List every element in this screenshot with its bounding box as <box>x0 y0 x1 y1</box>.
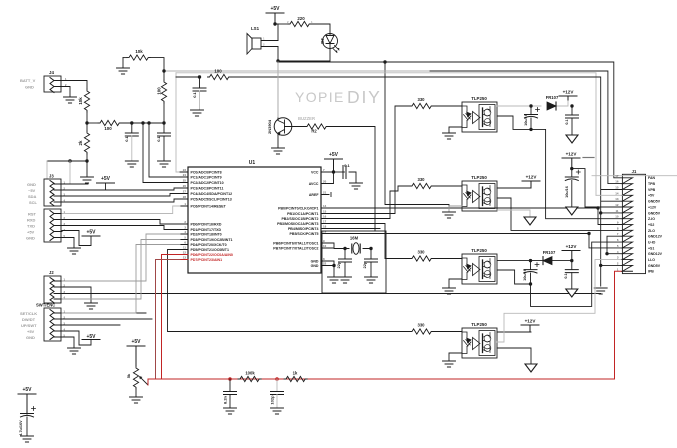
svg-text:1k: 1k <box>293 371 298 376</box>
wire PD2 to J2 pin1 <box>62 234 180 281</box>
wire PD3 to J2 pin4 <box>62 240 180 300</box>
svg-text:D3: D3 <box>320 38 325 44</box>
pin numbers <box>615 174 619 271</box>
output net to J1 pin6 <box>497 242 622 306</box>
svg-text:2k: 2k <box>78 140 83 145</box>
cap 10u/16 <box>524 106 540 129</box>
svg-text:FR107: FR107 <box>546 95 559 100</box>
svg-text:14: 14 <box>615 191 619 195</box>
svg-text:8: 8 <box>617 226 619 230</box>
svg-text:AREF: AREF <box>309 193 319 197</box>
svg-text:+12V: +12V <box>526 175 538 180</box>
svg-text:PC0/ADC0/PCINT8: PC0/ADC0/PCINT8 <box>191 170 222 174</box>
svg-text:17: 17 <box>323 220 327 224</box>
svg-text:PC5/ADC5/SCL/PCINT13: PC5/ADC5/SCL/PCINT13 <box>191 197 232 201</box>
svg-text:2: 2 <box>263 43 265 47</box>
gray wire across pin17 <box>592 175 677 177</box>
svg-text:0.1: 0.1 <box>156 135 161 141</box>
TXD wire to PD1 <box>62 226 180 230</box>
GND12V bundle pins 7 and 4 <box>607 236 622 254</box>
svg-text:SDA: SDA <box>28 194 37 199</box>
svg-text:ZLO: ZLO <box>648 229 655 233</box>
svg-text:PB3/MOSI/OC2A/PCINT3: PB3/MOSI/OC2A/PCINT3 <box>277 222 318 226</box>
svg-text:1: 1 <box>311 20 313 24</box>
svg-text:16M: 16M <box>350 236 359 241</box>
svg-text:0.1: 0.1 <box>192 91 197 97</box>
node speaker net / B branch <box>383 60 386 63</box>
svg-text:19: 19 <box>323 230 327 234</box>
VCC line with diode FR107 reversed <box>497 260 572 262</box>
cap 8.2n <box>223 379 237 414</box>
right pin stubs <box>321 172 329 266</box>
cap 10u/16 <box>523 261 539 284</box>
svg-text:PD7/PCINT23/AIN1: PD7/PCINT23/AIN1 <box>191 258 223 262</box>
svg-text:GND12V: GND12V <box>648 235 663 239</box>
wire PD5 to TLP4 input <box>168 250 411 332</box>
svg-text:YOPIE: YOPIE <box>295 89 345 105</box>
svg-text:BUZZER: BUZZER <box>298 116 315 121</box>
svg-text:PD3/PCINT19/OC2B/INT1: PD3/PCINT19/OC2B/INT1 <box>191 238 233 242</box>
svg-text:13: 13 <box>183 256 187 260</box>
svg-text:VCC: VCC <box>311 170 319 174</box>
wire J4 pin2 to gnd <box>64 87 70 98</box>
svg-text:TLP250: TLP250 <box>471 322 487 327</box>
svg-text:+12V: +12V <box>525 319 537 324</box>
svg-text:J3: J3 <box>49 174 54 179</box>
svg-text:+5V: +5V <box>27 329 35 334</box>
svg-text:TLP250: TLP250 <box>471 175 487 180</box>
svg-text:3: 3 <box>617 256 619 260</box>
svg-text:+S2: +S2 <box>648 223 654 227</box>
svg-text:+S1: +S1 <box>648 246 654 250</box>
J2 pin3 long wire <box>62 293 601 295</box>
svg-text:2: 2 <box>287 20 289 24</box>
svg-text:UP/SWT: UP/SWT <box>21 323 37 328</box>
output wire to J1 pin10 <box>497 116 622 219</box>
svg-text:20: 20 <box>323 180 327 184</box>
output to J1 pin8 <box>497 198 622 230</box>
svg-text:+12V: +12V <box>566 244 578 249</box>
svg-text:RST: RST <box>28 211 37 216</box>
connector J3 (I2C) <box>27 174 88 207</box>
opto U4 TLP250 <box>462 254 497 284</box>
resistor R2 <box>305 124 328 134</box>
connector J5 serial <box>26 209 66 242</box>
svg-text:BATT_V: BATT_V <box>20 78 36 83</box>
svg-text:TLP250: TLP250 <box>471 96 487 101</box>
svg-text:+12V: +12V <box>566 152 578 157</box>
svg-text:26: 26 <box>183 184 187 188</box>
svg-text:PD1/PCINT17/TXD: PD1/PCINT17/TXD <box>191 228 222 232</box>
svg-text:100k: 100k <box>245 371 255 376</box>
svg-text:PB4/MISO/PCINT4: PB4/MISO/PCINT4 <box>288 227 319 231</box>
svg-text:+5V: +5V <box>648 194 655 198</box>
svg-text:15: 15 <box>615 186 619 190</box>
connector J2 <box>44 270 62 303</box>
resistor 330 <box>410 323 433 335</box>
RXD wire to PD0 <box>62 220 180 225</box>
cap 102p <box>270 379 284 414</box>
svg-text:PD2/PCINT18/INT0: PD2/PCINT18/INT0 <box>191 232 222 236</box>
cap 22p right <box>362 249 378 284</box>
svg-text:GND: GND <box>25 85 34 90</box>
+12V at pin8 <box>497 187 531 189</box>
VCC line to +12V with diode <box>497 100 568 106</box>
svg-text:8: 8 <box>323 257 325 261</box>
svg-text:PB5/SCK/PCINT5: PB5/SCK/PCINT5 <box>290 232 319 236</box>
svg-text:22p: 22p <box>362 261 367 268</box>
RST wire (gray) to PC6 <box>62 206 180 214</box>
svg-text:4: 4 <box>617 250 619 254</box>
svg-text:0.1: 0.1 <box>565 119 569 124</box>
SCL wire to PC5 <box>62 199 180 202</box>
svg-text:11: 11 <box>615 209 618 213</box>
PB4 down to TLP4 input <box>329 228 380 230</box>
resistor 330 <box>410 97 433 109</box>
svg-text:TPB: TPB <box>648 182 655 186</box>
resistor 220 <box>287 16 313 27</box>
resistor 10k vertical <box>78 89 90 131</box>
AREF stub tick <box>330 193 332 197</box>
svg-text:GND: GND <box>27 182 36 187</box>
svg-text:GND5V: GND5V <box>648 264 661 268</box>
resistor 100k <box>238 371 261 382</box>
svg-text:J4: J4 <box>49 70 54 75</box>
resistor 330 <box>410 250 433 262</box>
wire J4 pin1 to divider <box>64 81 87 90</box>
PB3 down to TLP3 input <box>329 224 410 259</box>
pin numbers <box>183 168 187 260</box>
svg-text:12: 12 <box>615 203 619 207</box>
gray vertical to PC0 <box>176 73 188 172</box>
wire to PC1 <box>147 121 150 124</box>
resistor 330 <box>410 177 433 189</box>
long net A : collector node to J1 pin17 <box>278 62 622 178</box>
svg-text:U-IO: U-IO <box>648 241 656 245</box>
bottom node wires <box>47 161 87 177</box>
wire LED bottom back to column <box>278 49 330 61</box>
svg-text:PC2/ADC2/PCINT10: PC2/ADC2/PCINT10 <box>191 181 224 185</box>
+12V <box>562 244 580 261</box>
svg-text:LS1: LS1 <box>251 26 260 31</box>
ground under J1 <box>594 288 607 294</box>
svg-text:IPB: IPB <box>648 270 654 274</box>
crystal 16M <box>350 236 360 255</box>
svg-text:5: 5 <box>617 244 619 248</box>
wire +5V down to speaker / collector column <box>275 24 278 119</box>
svg-text:+5V: +5V <box>27 229 35 234</box>
svg-text:Z-IO: Z-IO <box>648 217 655 221</box>
svg-text:220: 220 <box>297 16 305 21</box>
svg-text:100: 100 <box>104 126 112 131</box>
pin5 to gnd triangle <box>497 210 530 217</box>
svg-text:10k: 10k <box>135 49 143 54</box>
svg-text:16: 16 <box>323 215 327 219</box>
svg-text:FR107: FR107 <box>543 250 556 255</box>
svg-text:0.1: 0.1 <box>124 135 129 141</box>
cap 0.1 <box>564 261 578 297</box>
svg-text:+5V: +5V <box>131 339 141 345</box>
svg-text:J2: J2 <box>49 270 54 275</box>
svg-text:PB1/OC1A/PCINT1: PB1/OC1A/PCINT1 <box>287 212 318 216</box>
GND pins wire <box>329 261 334 277</box>
resistor 1k <box>284 371 307 382</box>
svg-text:+12V: +12V <box>563 90 575 95</box>
svg-text:J1: J1 <box>632 169 637 174</box>
svg-text:R2: R2 <box>311 129 317 134</box>
svg-text:SET/CLK: SET/CLK <box>20 311 37 316</box>
long net E y=77 <box>176 77 622 286</box>
svg-text:9: 9 <box>617 221 619 225</box>
svg-text:0.1: 0.1 <box>564 273 568 278</box>
wire PD4 to SWT pin1 <box>62 245 180 314</box>
output gray to J1 pin3 <box>497 260 622 342</box>
svg-text:100: 100 <box>214 69 222 74</box>
svg-text:1: 1 <box>263 37 265 41</box>
svg-text:9: 9 <box>323 239 325 243</box>
svg-text:PB7/PCINT7/XTAL2/TOSC2: PB7/PCINT7/XTAL2/TOSC2 <box>273 246 318 250</box>
svg-text:11: 11 <box>183 246 186 250</box>
node: +5V junction <box>273 22 276 25</box>
svg-text:100: 100 <box>157 87 162 95</box>
svg-text:U1: U1 <box>249 160 256 166</box>
LED D3 <box>320 31 339 53</box>
wire resistor to LED <box>310 24 330 31</box>
+12V <box>559 90 577 101</box>
svg-text:TLP250: TLP250 <box>471 248 487 253</box>
svg-text:6: 6 <box>617 238 619 242</box>
svg-text:330: 330 <box>418 177 426 182</box>
svg-text:PC1/ADC1/PCINT9: PC1/ADC1/PCINT9 <box>191 175 222 179</box>
svg-text:SCL: SCL <box>29 200 38 205</box>
emitter to ground <box>277 135 279 148</box>
svg-text:GND: GND <box>311 259 319 263</box>
cap 0.1 <box>565 106 579 143</box>
svg-text:GND: GND <box>26 335 35 340</box>
svg-text:16: 16 <box>615 180 619 184</box>
svg-text:FAN: FAN <box>648 176 655 180</box>
ground left of 10k <box>122 58 124 68</box>
+5V rail top <box>266 6 284 24</box>
svg-text:8.2n: 8.2n <box>223 395 228 404</box>
cap 0.1 at VCC <box>334 163 363 189</box>
svg-text:4.7u/16V: 4.7u/16V <box>19 420 23 436</box>
svg-text:2N3904: 2N3904 <box>267 119 272 134</box>
pin labels <box>648 176 663 273</box>
svg-text:24: 24 <box>183 173 187 177</box>
svg-text:VPB: VPB <box>648 188 656 192</box>
svg-text:PC3/ADC3/PCINT11: PC3/ADC3/PCINT11 <box>191 186 224 190</box>
svg-text:PD6/PCINT22/OC0A/AIN0: PD6/PCINT22/OC0A/AIN0 <box>191 253 233 257</box>
svg-text:PB0/PCINT0/CLKO/ICP1: PB0/PCINT0/CLKO/ICP1 <box>278 206 318 210</box>
resistor 10k horizontal <box>123 49 164 71</box>
red bottom rail <box>148 271 622 379</box>
svg-text:GND: GND <box>311 264 319 268</box>
svg-text:25: 25 <box>183 179 187 183</box>
long net C black y=71 <box>164 70 430 72</box>
input gnd <box>449 353 462 361</box>
svg-text:GND5V: GND5V <box>648 200 661 204</box>
svg-text:+5V: +5V <box>86 230 96 236</box>
svg-text:6: 6 <box>184 241 186 245</box>
wire to PC2 <box>141 121 144 124</box>
GND wire <box>62 238 74 249</box>
PD6 red wire <box>162 255 181 380</box>
svg-text:1: 1 <box>617 267 619 271</box>
svg-text:4: 4 <box>64 228 66 232</box>
svg-text:2: 2 <box>617 261 619 265</box>
svg-text:1: 1 <box>184 202 186 206</box>
svg-text:PD0/PCINT16/RXD: PD0/PCINT16/RXD <box>191 222 222 226</box>
svg-text:RXD: RXD <box>27 217 36 222</box>
svg-text:21: 21 <box>323 191 327 195</box>
svg-text:12: 12 <box>183 251 187 255</box>
input gnd <box>449 206 462 212</box>
resistor 100 horizontal divider <box>87 120 164 131</box>
svg-text:GND5V: GND5V <box>648 211 661 215</box>
svg-text:+5V: +5V <box>22 387 32 393</box>
svg-text:22: 22 <box>323 262 327 266</box>
XTAL wires <box>329 243 371 249</box>
svg-text:10u/16: 10u/16 <box>524 114 528 126</box>
long net B <box>385 62 449 208</box>
opto U2 TLP250 <box>462 102 497 132</box>
svg-text:2: 2 <box>184 220 186 224</box>
cap 0.1 second <box>156 123 171 167</box>
long net D gray y=72.8 <box>176 73 596 196</box>
right pin names <box>273 170 319 268</box>
svg-text:22p: 22p <box>336 261 341 268</box>
svg-text:18: 18 <box>323 225 327 229</box>
wire ends into J1 pin 14 <box>596 194 622 196</box>
cap 22p left <box>336 249 352 284</box>
input gnd <box>449 127 462 133</box>
SDA wire to PC4 <box>62 194 180 197</box>
svg-text:4: 4 <box>184 230 186 234</box>
+5V wire <box>62 231 91 246</box>
svg-text:10k: 10k <box>78 97 83 105</box>
svg-text:17: 17 <box>615 174 619 178</box>
opto U3 TLP250 <box>462 181 497 211</box>
svg-text:+5V: +5V <box>270 6 280 12</box>
svg-text:10: 10 <box>615 215 619 219</box>
svg-text:PB2/SS/OC1B/PCINT2: PB2/SS/OC1B/PCINT2 <box>281 217 318 221</box>
svg-text:5: 5 <box>184 236 186 240</box>
svg-text:PC6/PCINT14/RESET: PC6/PCINT14/RESET <box>191 204 227 208</box>
resistor 2k vertical <box>78 131 90 161</box>
svg-text:3: 3 <box>184 226 186 230</box>
PB5 to J1 pin5 <box>329 234 622 248</box>
cap 10u/16 <box>565 169 580 215</box>
PB2 up to TLP2 input <box>329 186 410 219</box>
svg-text:~5V: ~5V <box>28 188 36 193</box>
base wire to R2 <box>285 126 306 128</box>
svg-text:GND12V: GND12V <box>648 252 663 256</box>
PB0 to J1 pin9 <box>329 208 622 225</box>
enclosure wire loop <box>322 231 386 293</box>
svg-text:LLO: LLO <box>648 258 655 262</box>
svg-text:7: 7 <box>617 232 619 236</box>
svg-text:23: 23 <box>183 168 187 172</box>
wire to resistor 220 <box>275 23 288 25</box>
svg-text:10u/16: 10u/16 <box>523 269 527 281</box>
svg-text:15: 15 <box>323 210 327 214</box>
left pin stubs <box>180 172 188 250</box>
svg-text:TXD: TXD <box>27 223 35 228</box>
svg-text:SWT/ENC: SWT/ENC <box>36 303 55 308</box>
svg-text:5k: 5k <box>126 373 131 378</box>
svg-text:+12V: +12V <box>648 205 657 209</box>
wire gray collector segment <box>277 62 279 117</box>
resistor 100 vertical <box>157 71 167 123</box>
J2 pin2 to gnd <box>62 287 91 303</box>
svg-text:AVCC: AVCC <box>309 182 319 186</box>
svg-text:DIY: DIY <box>347 87 382 107</box>
svg-text:27: 27 <box>183 190 187 194</box>
svg-text:+5V: +5V <box>329 152 339 158</box>
svg-text:10u/16: 10u/16 <box>565 186 569 198</box>
J3 ~5V wire continues to PC3 <box>62 183 180 190</box>
wire R2 to vertical x375 <box>327 127 375 232</box>
+12V at pin8 <box>497 331 531 333</box>
PB1 up to TLP1 input <box>329 106 410 214</box>
connector J4 <box>20 70 67 93</box>
input gnd <box>449 279 462 288</box>
svg-text:28: 28 <box>183 195 187 199</box>
SWT wires <box>62 313 152 325</box>
cap 0.1 first <box>124 121 138 167</box>
svg-text:GND: GND <box>26 235 35 240</box>
pin5 to gnd triangle <box>497 348 531 364</box>
svg-text:330: 330 <box>418 323 426 328</box>
left pin names <box>191 170 233 262</box>
transistor Q1 2N3904 <box>267 118 292 136</box>
svg-text:PD4/PCINT20/XCK/T0: PD4/PCINT20/XCK/T0 <box>191 243 227 247</box>
speaker LS1 <box>247 26 278 54</box>
opto U5 TLP250 <box>462 328 497 358</box>
svg-text:PB6/PCINT6/XTAL1/TOSC1: PB6/PCINT6/XTAL1/TOSC1 <box>273 241 318 245</box>
svg-text:PC4/ADC4/SDA/PCINT12: PC4/ADC4/SDA/PCINT12 <box>191 192 233 196</box>
svg-text:+5V: +5V <box>101 176 111 182</box>
svg-text:102p: 102p <box>270 395 275 405</box>
resistor 100 on net E <box>208 69 231 80</box>
svg-text:14: 14 <box>323 204 327 208</box>
cap 0.1 on net E <box>191 77 207 116</box>
svg-text:10: 10 <box>323 244 327 248</box>
svg-text:330: 330 <box>418 97 426 102</box>
svg-text:330: 330 <box>418 250 426 255</box>
connector SWT/ENC <box>20 303 62 342</box>
svg-text:DW/DT: DW/DT <box>22 317 36 322</box>
diode FR107 <box>546 95 559 110</box>
svg-text:0.1: 0.1 <box>344 163 350 168</box>
PD7 red wire <box>156 260 181 380</box>
ground <box>272 148 285 154</box>
svg-text:13: 13 <box>615 197 619 201</box>
svg-text:7: 7 <box>323 168 325 172</box>
svg-text:PD5/PCINT21/OC0B/T1: PD5/PCINT21/OC0B/T1 <box>191 248 229 252</box>
